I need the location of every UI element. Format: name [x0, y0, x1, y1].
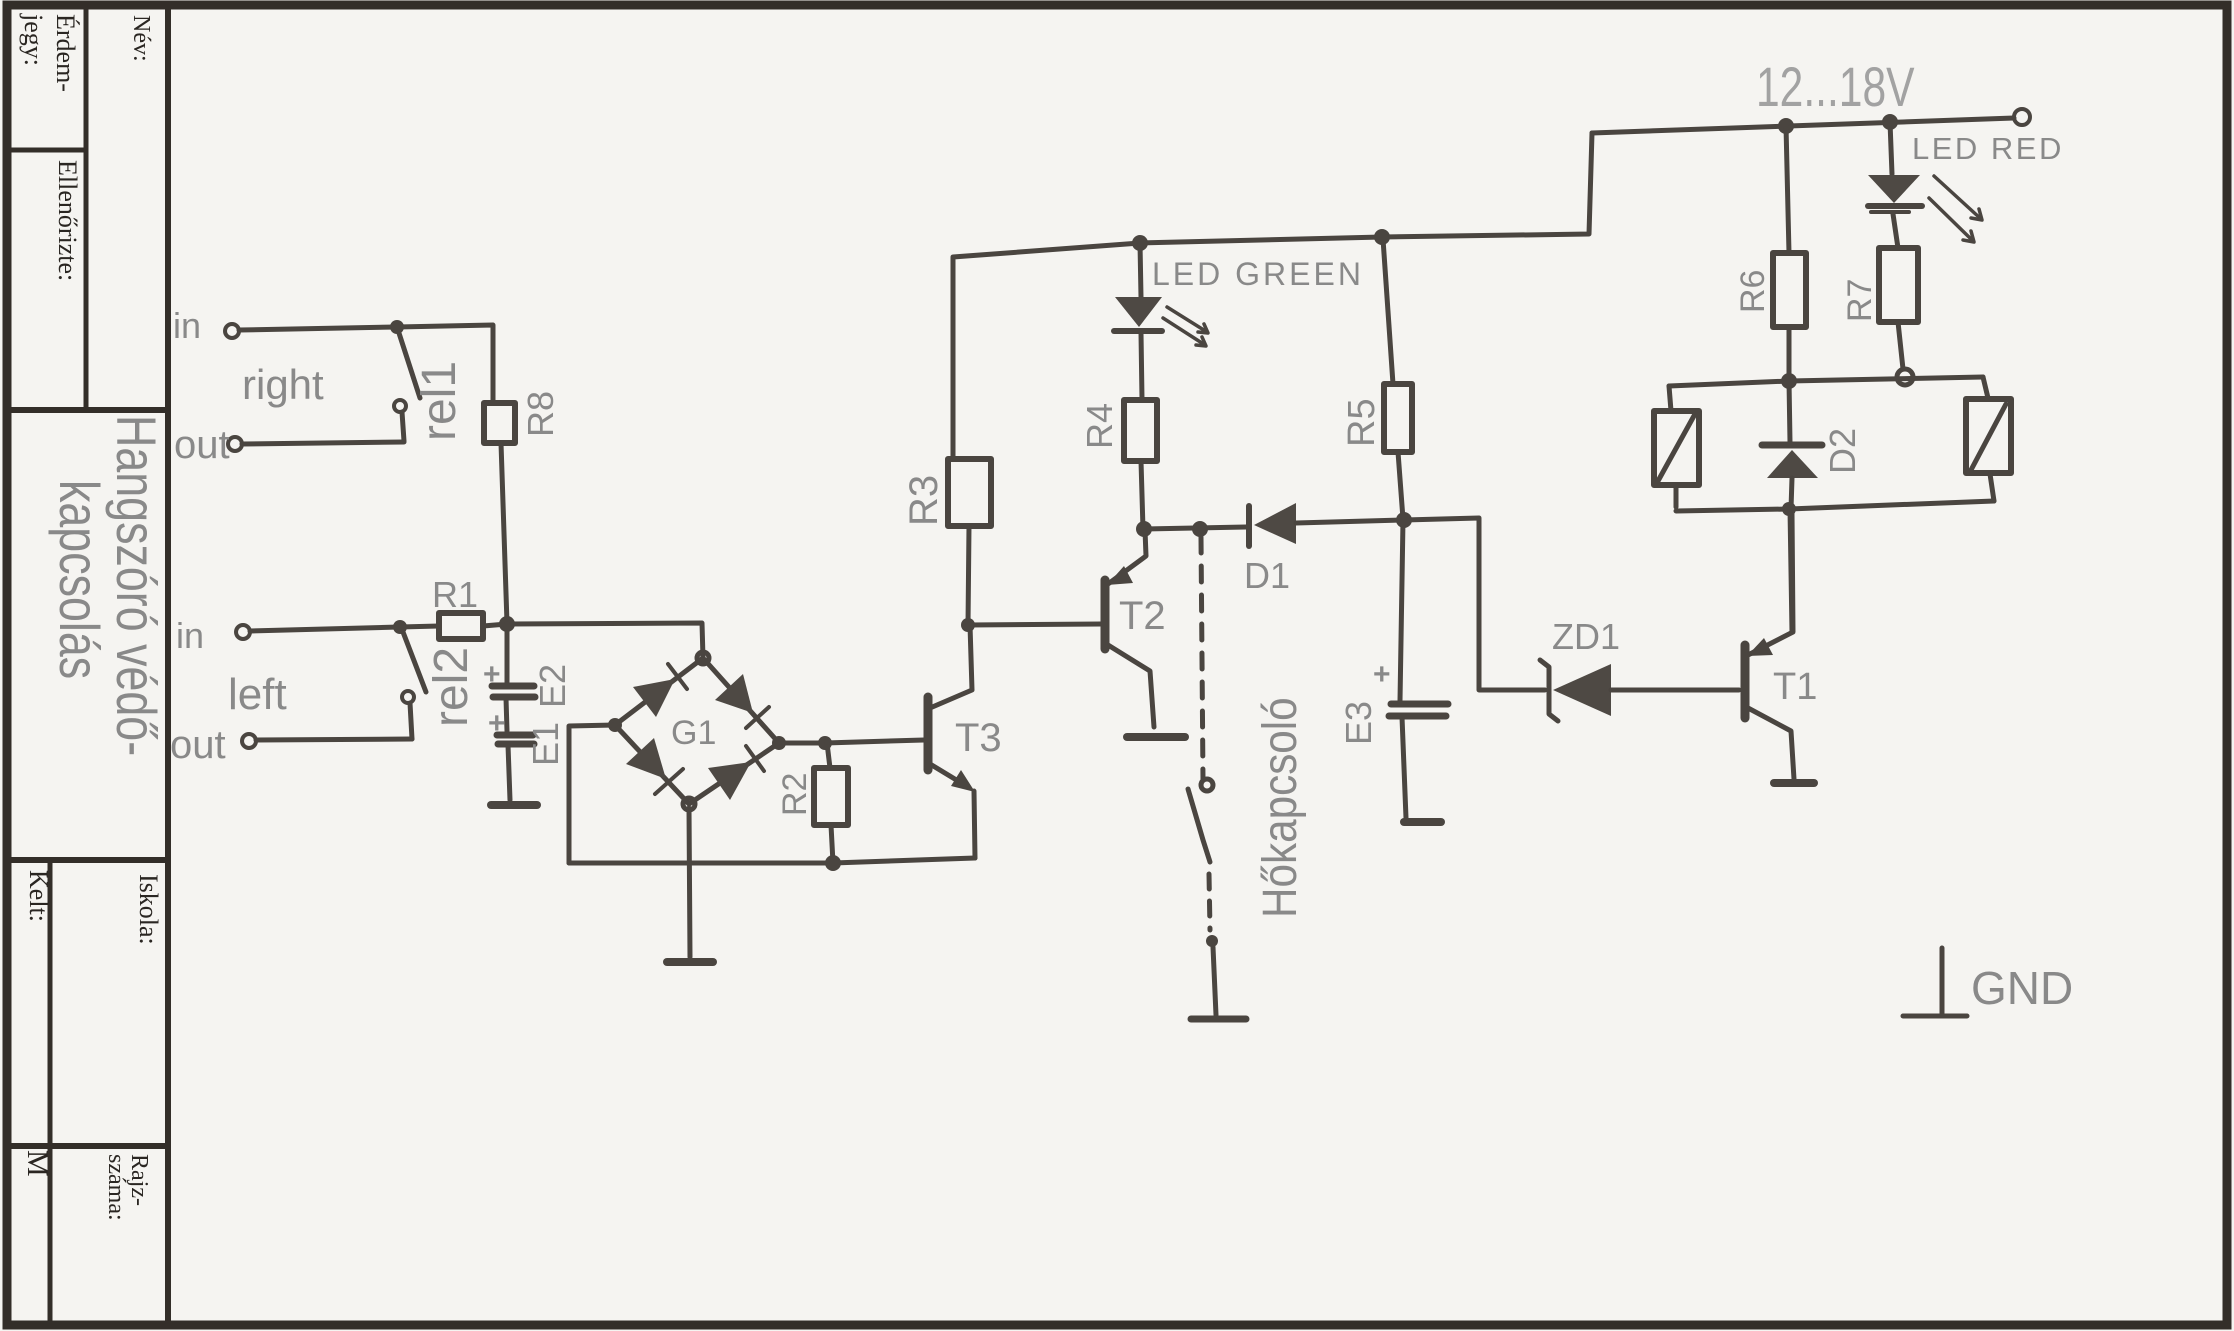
wire out left — [256, 739, 412, 740]
wire in left — [250, 627, 399, 631]
wire R7 to coil bus — [1898, 322, 1903, 369]
node LED red rail junction — [1882, 114, 1898, 130]
bridge diode top-right — [715, 674, 753, 713]
capacitor E2 — [492, 686, 535, 697]
coil bus bottom — [1676, 501, 1994, 511]
svg-text:R7: R7 — [1841, 279, 1879, 322]
resistor R6 — [1773, 253, 1806, 327]
transistor T2 collector arrow — [1107, 566, 1133, 585]
zener ZD1 triangle — [1553, 664, 1611, 716]
wire G1 left to bottom rail — [569, 725, 615, 863]
node G1 top — [697, 652, 709, 664]
power rail 12..18V — [1592, 118, 2014, 133]
svg-text:R1: R1 — [432, 574, 478, 615]
terminal in left — [236, 625, 250, 639]
node right-in junction — [390, 320, 404, 334]
wire E3 to bar — [1402, 717, 1406, 818]
svg-text:R6: R6 — [1734, 270, 1772, 313]
LED red cathode bar 2 — [1871, 210, 1909, 214]
wire bus to T1 collector — [1790, 509, 1792, 632]
wire G1 bottom to ground — [689, 808, 690, 957]
bridge diode bottom-right — [708, 762, 751, 800]
svg-text:rel2: rel2 — [425, 647, 478, 727]
svg-text:E2: E2 — [532, 664, 573, 708]
wire bus to right coil — [1983, 377, 1988, 398]
ground bar under E3 — [1404, 818, 1441, 826]
wire bus to left coil — [1669, 386, 1671, 411]
wire thermal switch down — [1213, 947, 1216, 1015]
capacitor E1 — [497, 735, 534, 744]
bridge rectifier G1 outline — [615, 658, 779, 804]
wire node to D1 — [1144, 527, 1246, 529]
wire R6 node to D2 — [1789, 381, 1790, 442]
transistor T3 emitter arrow — [951, 770, 975, 792]
svg-text:D2: D2 — [1822, 428, 1863, 474]
svg-text:száma:: száma: — [103, 1154, 129, 1221]
ground bar under thermal switch — [1191, 1016, 1246, 1023]
svg-text:Hőkapcsoló: Hőkapcsoló — [1252, 697, 1306, 918]
svg-text:12...18V: 12...18V — [1756, 55, 1914, 118]
svg-text:out: out — [170, 723, 226, 767]
relay coil right — [1966, 399, 2011, 473]
wire rel1 contact stub — [402, 412, 404, 441]
wire D2 to bus bottom — [1791, 478, 1792, 509]
svg-text:in: in — [173, 305, 201, 346]
svg-text:rel1: rel1 — [413, 361, 466, 441]
svg-text:ZD1: ZD1 — [1552, 616, 1620, 657]
transistor T3 collector — [930, 625, 972, 708]
diode D1 cathode bar — [1246, 506, 1252, 546]
wire node A to bridge top — [507, 623, 703, 658]
svg-text:+: + — [483, 658, 501, 691]
transistor T1 emitter — [1748, 708, 1794, 779]
svg-text:GND: GND — [1971, 962, 2073, 1014]
svg-text:Ellenőrizte:: Ellenőrizte: — [53, 160, 82, 281]
diode D2 cathode bar — [1762, 442, 1822, 449]
svg-text:Kelt:: Kelt: — [24, 870, 53, 922]
bridge diode bottom-left — [626, 738, 666, 779]
resistor R8 — [484, 403, 515, 443]
thermal switch lower contact — [1206, 935, 1218, 947]
svg-text:M: M — [21, 1150, 54, 1177]
bridge diode bottom-left cathode tick — [655, 769, 683, 794]
node G1 left — [608, 718, 622, 732]
transistor T2 emitter — [1108, 645, 1154, 727]
ground bar under T1 — [1774, 779, 1814, 787]
transistor T3 emitter — [930, 764, 968, 787]
wire node A down to E2 — [505, 624, 510, 683]
node G1 right — [772, 736, 786, 750]
svg-text:E3: E3 — [1338, 701, 1379, 745]
node R5 rail junction — [1374, 229, 1390, 245]
bridge diode top-left — [633, 679, 675, 717]
thermal switch upper contact — [1201, 779, 1213, 791]
thermal switch dashed gap — [1209, 874, 1210, 930]
svg-text:kapcsolás: kapcsolás — [48, 480, 111, 679]
node R6 bottom — [1781, 373, 1797, 389]
svg-text:T1: T1 — [1773, 666, 1817, 708]
transistor T2 collector — [1108, 530, 1146, 584]
node R5 / E3 — [1396, 512, 1412, 528]
wire E2 to E1 — [506, 698, 507, 731]
LED green triangle — [1115, 297, 1162, 327]
terminal out right — [228, 437, 242, 451]
svg-text:Érdem-: Érdem- — [51, 14, 80, 92]
svg-text:R2: R2 — [776, 773, 814, 816]
wire node to E3 — [1400, 520, 1403, 701]
thermal switch blade — [1188, 789, 1210, 862]
transistor T3 bar — [924, 697, 933, 770]
wire T3 emitter down — [974, 791, 975, 858]
zener ZD1 cathode bar — [1540, 660, 1558, 721]
resistor R2 — [814, 768, 848, 825]
wire R1 to node A — [483, 624, 507, 626]
wire R2 top — [827, 743, 830, 768]
LED red emission arrows — [1929, 176, 1982, 242]
svg-text:Iskola:: Iskola: — [134, 874, 163, 945]
node R4 / T2 collector — [1136, 521, 1152, 537]
ground bar under G1 — [667, 958, 713, 966]
node R7 bottom — [1897, 369, 1913, 385]
wire ZD1 to T1 base — [1611, 688, 1739, 693]
node thermal switch tap — [1192, 521, 1208, 537]
capacitor E3 — [1389, 704, 1448, 716]
wire R8 to node A — [501, 443, 507, 623]
wire out right — [242, 442, 404, 444]
LED red cathode bar — [1868, 203, 1922, 209]
wire right coil to bus bottom — [1990, 474, 1994, 501]
wire R3 to T2 base node — [968, 526, 969, 625]
wire LED red to R7 — [1893, 214, 1898, 248]
wire junction to R8 corner — [397, 325, 493, 403]
wire rail to LED green — [1140, 243, 1141, 297]
wire junction to R1 — [400, 626, 439, 627]
wire E1 to ground bar — [508, 745, 510, 800]
relay contact rel2 blade — [403, 632, 426, 692]
transistor T1 collector arrow — [1747, 638, 1773, 656]
node A — [499, 616, 515, 632]
wire in right — [239, 327, 396, 330]
resistor R5 — [1384, 384, 1412, 452]
transistor T1 bar — [1741, 645, 1750, 718]
wire T2 base — [968, 624, 1101, 625]
diode D2 triangle — [1767, 450, 1818, 478]
bridge diode top-left cathode tick — [668, 664, 687, 689]
thermal switch dashed line — [1201, 537, 1203, 780]
wire rel2 contact stub — [410, 703, 412, 739]
wire G1 right to T3 base — [779, 740, 924, 743]
resistor R1 — [439, 613, 483, 639]
wire left coil to bus bottom — [1674, 485, 1679, 507]
node D2 bottom — [1782, 502, 1796, 516]
wire R2 bottom — [831, 825, 833, 863]
node LED green rail junction — [1132, 235, 1148, 251]
relay contact rel1 blade — [398, 330, 420, 398]
coil bus top — [1669, 377, 1983, 386]
diode D1 triangle — [1254, 503, 1296, 544]
node R6 rail junction — [1778, 118, 1794, 134]
wire rail to R6 — [1786, 126, 1789, 253]
wire LED green to R4 — [1141, 333, 1142, 399]
terminal out left — [242, 734, 256, 748]
wire R5 to node — [1398, 452, 1403, 519]
relay coil left — [1654, 411, 1699, 485]
svg-text:E1: E1 — [525, 722, 566, 766]
mid power rail — [953, 133, 1592, 459]
svg-text:R8: R8 — [520, 391, 561, 437]
relay contact rel1 fixed contact — [394, 400, 406, 412]
relay contact rel2 fixed contact — [402, 691, 414, 703]
wire rail to R5 — [1383, 239, 1393, 384]
bridge diode bottom-right cathode tick — [746, 746, 764, 771]
LED green emission arrows — [1163, 307, 1208, 346]
node R2 top — [818, 736, 832, 750]
svg-text:left: left — [228, 670, 287, 719]
svg-text:D1: D1 — [1244, 555, 1290, 596]
node T2 base junction — [961, 618, 975, 632]
svg-text:R4: R4 — [1079, 403, 1120, 449]
resistor R4 — [1124, 400, 1157, 461]
relay coil right diagonal — [1971, 404, 2006, 470]
node R2 bottom — [825, 855, 841, 871]
svg-text:T2: T2 — [1119, 594, 1166, 638]
handwritten labels — [170, 55, 2073, 1014]
relay coil left diagonal — [1658, 414, 1695, 481]
wire R5 node to ZD1 — [1404, 518, 1545, 690]
wire R4 to node — [1141, 461, 1143, 529]
svg-text:Név:: Név: — [128, 15, 154, 62]
svg-text:out: out — [174, 423, 230, 467]
schematic title text — [48, 415, 168, 756]
svg-text:jegy:: jegy: — [19, 13, 48, 66]
LED red triangle — [1868, 175, 1920, 203]
bridge diode top-right cathode tick — [746, 707, 769, 728]
transistor T1 collector — [1748, 513, 1793, 655]
node left-in junction — [393, 620, 407, 634]
svg-text:G1: G1 — [671, 714, 716, 752]
transistor T2 bar — [1101, 580, 1110, 649]
terminal in right — [225, 324, 239, 338]
svg-text:+: + — [488, 707, 506, 740]
svg-text:in: in — [176, 615, 204, 656]
svg-text:right: right — [242, 361, 324, 408]
svg-text:+: + — [1373, 658, 1391, 691]
node G1 bottom — [683, 798, 695, 810]
wire R6 to coil bus — [1787, 327, 1792, 381]
svg-text:R3: R3 — [902, 475, 946, 526]
svg-text:Hangszóró védő-: Hangszóró védő- — [105, 415, 168, 756]
wire rail to LED red — [1890, 122, 1892, 174]
wire D1 to R5 node — [1296, 520, 1404, 523]
ground bar under E1 — [491, 801, 537, 809]
bottom rail wire — [569, 858, 975, 863]
ground symbol GND — [1940, 948, 1945, 1014]
ground bar under T2 — [1127, 733, 1185, 741]
svg-text:T3: T3 — [955, 716, 1002, 760]
svg-text:LED RED: LED RED — [1912, 131, 2064, 166]
resistor R3 — [948, 459, 991, 526]
power rail terminal — [2014, 109, 2030, 125]
LED green cathode bar — [1114, 328, 1162, 334]
svg-text:R5: R5 — [1341, 398, 1383, 447]
resistor R7 — [1879, 248, 1918, 322]
svg-text:LED GREEN: LED GREEN — [1152, 256, 1364, 292]
